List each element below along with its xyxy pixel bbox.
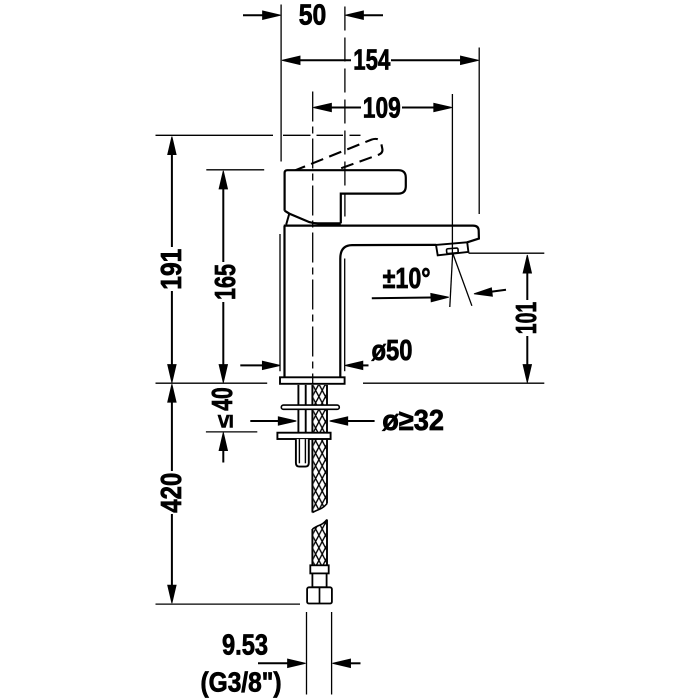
- svg-text:191: 191: [156, 249, 188, 290]
- extension line right of dim 154: [478, 48, 480, 215]
- mounting plate: [277, 433, 330, 439]
- dimension 50 arrows: [243, 14, 383, 16]
- faucet technical drawing: [156, 0, 545, 698]
- hose neck: [312, 573, 326, 587]
- hose ferrule: [310, 565, 328, 573]
- dimension 420 line: [171, 402, 173, 586]
- aerator: [436, 242, 468, 255]
- column left edge: [283, 226, 285, 377]
- dimension 154 line: [300, 59, 461, 61]
- dimension 191 line: [171, 154, 173, 366]
- svg-text:ø50: ø50: [372, 335, 413, 367]
- reference line 40 below deck: [206, 431, 257, 433]
- dimension o50 arrows at deck: [240, 364, 262, 366]
- spray angle line right: [453, 255, 472, 306]
- svg-text:109: 109: [363, 93, 401, 125]
- braided hose upper segment: [312, 385, 327, 513]
- fixing bolt end: [296, 439, 309, 467]
- svg-text:154: 154: [353, 45, 390, 77]
- housing chamfer facet: [286, 214, 289, 225]
- angle reference line from aerator: [469, 252, 545, 254]
- washer: [281, 405, 339, 409]
- svg-text:≤: ≤: [212, 414, 238, 428]
- angle arrow left: [372, 297, 431, 300]
- extension line right of dim 109 (to aerator): [451, 94, 453, 255]
- svg-text:ø≥32: ø≥32: [382, 405, 444, 437]
- reference line top of body (165): [206, 169, 264, 171]
- svg-text:165: 165: [210, 264, 242, 300]
- handle lever and housing: [285, 170, 406, 223]
- dimension 9.53 extension lines: [307, 612, 332, 695]
- bottom reference line of 420: [156, 603, 301, 605]
- deck line right: [363, 382, 544, 384]
- angle arrow right: [492, 290, 506, 292]
- svg-text:40: 40: [207, 387, 239, 411]
- svg-text:(G3/8"): (G3/8"): [201, 667, 282, 698]
- top reference line (lever raised height): [156, 134, 361, 136]
- svg-text:±10°: ±10°: [383, 263, 431, 295]
- extension line left of dim 50: [280, 5, 282, 162]
- spout body: [284, 226, 479, 243]
- spray angle line left: [450, 255, 453, 308]
- braided hose lower segment: [312, 520, 327, 566]
- dimension 109 line: [331, 107, 434, 109]
- svg-text:9.53: 9.53: [222, 630, 268, 662]
- dimension 165 line: [222, 189, 224, 367]
- faucet centerline (dash-dot): [312, 92, 314, 385]
- raised lever (dashed outline): [293, 139, 382, 182]
- hose hex nut: [307, 587, 332, 603]
- dimension <=40 lower arrow: [222, 451, 224, 463]
- spout underside and column corner: [340, 245, 436, 377]
- column silhouette thin edges: [279, 234, 281, 371]
- dimension 9.53 arrows: [258, 662, 288, 664]
- dashed extension line right of dim 50: [344, 7, 346, 219]
- svg-text:101: 101: [511, 302, 543, 335]
- svg-text:50: 50: [299, 0, 327, 32]
- svg-text:420: 420: [156, 473, 188, 513]
- deck line left: [156, 382, 268, 384]
- base flange: [280, 377, 345, 384]
- aerator outlet insert: [446, 248, 458, 254]
- dimension 101 line: [526, 273, 528, 365]
- threaded fixing rod: [298, 385, 305, 433]
- dimension o>=32 arrows: [250, 420, 278, 422]
